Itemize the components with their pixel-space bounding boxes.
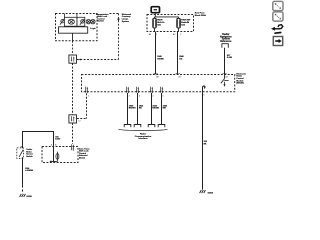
- splice group text: [135, 134, 152, 141]
- lower harness wire top: [22, 131, 54, 162]
- svg-text:BK/GN: BK/GN: [152, 108, 159, 110]
- fuse block name text: [195, 13, 207, 17]
- wire label 1: [157, 55, 164, 60]
- pin arrows bottom edge x=86.6: [85, 87, 88, 94]
- internal driver switch Q1: [221, 74, 229, 84]
- svg-text:A2: A2: [173, 33, 175, 36]
- svg-text:G203: G203: [208, 192, 214, 194]
- svg-text:1: 1: [88, 95, 89, 97]
- icon return arrow: [271, 25, 283, 34]
- svg-text:A8: A8: [156, 75, 158, 78]
- svg-text:Interface: Interface: [138, 137, 148, 140]
- wire C1 to C2: [72, 63, 74, 115]
- fuse block callout button: [151, 7, 159, 13]
- module K9 name text: [236, 72, 247, 84]
- connector pins entering lamp box: [71, 144, 74, 151]
- svg-text:D-GN: D-GN: [227, 57, 233, 59]
- branch flow arrow left: [79, 59, 81, 61]
- park brake switch S1 dashed box: [17, 148, 24, 159]
- wire fuse F2 to module top: [177, 32, 179, 75]
- svg-text:G305: G305: [26, 196, 32, 198]
- in-line connector C1: [69, 55, 77, 63]
- wire from logic box to connector C1: [72, 33, 74, 55]
- wire 1 down to lug: [127, 93, 129, 125]
- icon open in new window 1: [273, 1, 283, 10]
- solenoid coil L1: [60, 19, 64, 25]
- svg-text:2: 2: [129, 95, 130, 97]
- icon forward arrow button: [273, 37, 282, 46]
- svg-text:BK/WH: BK/WH: [129, 108, 136, 110]
- svg-text:Switch: Switch: [26, 155, 33, 158]
- fuse F2 label: [181, 20, 191, 27]
- terminal lugs: [124, 125, 131, 128]
- solenoid coil L2: [80, 19, 84, 25]
- svg-text:1: 1: [156, 34, 157, 36]
- shift lock solenoid dashed box A2: [42, 147, 78, 163]
- svg-text:D-BU: D-BU: [55, 139, 61, 141]
- wire reference to module: [224, 48, 226, 75]
- wire label: [227, 55, 233, 59]
- wire to ground G203: [202, 92, 204, 189]
- bus from button to fuses: [155, 13, 179, 19]
- svg-text:2: 2: [180, 34, 181, 36]
- svg-text:OG: OG: [179, 59, 183, 61]
- svg-text:Logic: Logic: [90, 28, 96, 30]
- svg-text:OG/BK: OG/BK: [157, 59, 164, 61]
- svg-text:10A: 10A: [157, 23, 161, 26]
- svg-text:6: 6: [203, 95, 204, 97]
- module top pin ticks and labels: [154, 73, 227, 75]
- module A1 name text: [96, 14, 110, 23]
- svg-text:5: 5: [163, 95, 164, 97]
- box A2 top pin ticks: [51, 144, 56, 146]
- wire from pin 86.6 to C2: [77, 93, 87, 118]
- brace under lugs: [119, 129, 168, 130]
- svg-text:B2: B2: [226, 76, 228, 78]
- fuse F1 label: [157, 20, 165, 27]
- svg-text:C2: C2: [78, 120, 80, 122]
- switch blade: [19, 147, 23, 157]
- switch contact housing boxes inside A1: [64, 14, 84, 27]
- svg-text:Reference: Reference: [220, 41, 232, 43]
- twin lamp symbols right of boxes: [86, 19, 95, 23]
- wire 4 down to lug: [161, 93, 163, 125]
- box A2 text: [79, 147, 90, 159]
- wire label 2: [179, 55, 184, 60]
- pin arrows bottom edge four wires: [126, 87, 129, 94]
- svg-text:L-GN/BK: L-GN/BK: [25, 170, 34, 172]
- switch S1 text: [26, 149, 33, 158]
- svg-text:Switch: Switch: [97, 20, 104, 23]
- body control module dashed box K9: [82, 75, 235, 92]
- off page reference symbol: [222, 44, 228, 48]
- wire C2 down to lamp box: [72, 123, 74, 144]
- in-line connector C2: [69, 115, 77, 123]
- svg-text:WH: WH: [163, 108, 167, 110]
- svg-text:A7: A7: [179, 75, 181, 78]
- pin labels: [129, 95, 164, 97]
- icon open in new window 2: [273, 12, 283, 21]
- lamp bottom wire and junction dot: [51, 161, 58, 163]
- indicator lamp symbol inside left box: [68, 19, 74, 24]
- svg-text:3: 3: [139, 95, 140, 97]
- svg-text:A6: A6: [149, 33, 151, 36]
- logic box U1: [59, 27, 88, 33]
- svg-text:(Gate): (Gate): [79, 157, 85, 160]
- lamp inside A2: [56, 152, 59, 162]
- courtesy lamps system text: [122, 14, 132, 23]
- svg-text:Block X50A: Block X50A: [195, 14, 207, 17]
- wire to ground G305: [22, 157, 24, 193]
- svg-text:15A: 15A: [181, 23, 185, 26]
- wire label: [25, 167, 34, 172]
- radio navigation reference label: [220, 34, 232, 43]
- wire fuse F1 to module top: [155, 32, 157, 75]
- svg-text:4: 4: [152, 95, 153, 97]
- ground G203: [200, 190, 206, 193]
- fuse F1: [153, 18, 157, 31]
- wire 3 down to lug: [151, 93, 153, 125]
- fuse block bottom pin labels: [149, 33, 181, 36]
- fuse block dashed box: [147, 15, 194, 32]
- shift lock control module dashed box A1: [56, 14, 98, 41]
- svg-text:(EBCM): (EBCM): [236, 83, 244, 85]
- ground G305: [20, 194, 26, 197]
- dashed branch to courtesy lamps system: [77, 14, 119, 60]
- wire 2 down to lug: [137, 93, 139, 125]
- svg-text:System: System: [122, 20, 129, 23]
- branch flow arrow down: [117, 19, 120, 22]
- wire label: [204, 141, 208, 145]
- wire label lamp feed: [55, 135, 61, 140]
- wire labels: [129, 104, 168, 109]
- fuse F2: [177, 18, 181, 31]
- internal hook connection: [203, 86, 205, 92]
